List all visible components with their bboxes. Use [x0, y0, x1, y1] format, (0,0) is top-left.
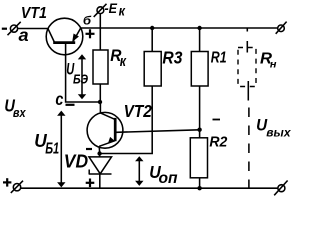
svg-text:а: а — [19, 25, 29, 45]
terminal bottom-right — [274, 181, 287, 196]
wire R1 bottom to R2 — [199, 86, 201, 138]
junction dot R2 bottom — [197, 186, 201, 190]
resistor Rn dashed top wire — [246, 28, 248, 32]
terminal bottom-left — [11, 181, 23, 193]
VD junction dot — [97, 151, 101, 155]
diode VD (zener) — [89, 154, 112, 189]
resistor R1 — [191, 52, 208, 87]
wire VT1 collector down to node c — [66, 44, 100, 102]
minus sign at input a — [2, 28, 7, 30]
wire Rk bottom to node c — [99, 84, 101, 102]
svg-text:R3: R3 — [162, 47, 182, 67]
plus sign under node b — [86, 29, 95, 38]
node c junction dot — [98, 100, 102, 104]
plus sign bottom-left — [3, 178, 11, 186]
svg-text:R2: R2 — [209, 134, 227, 150]
top rail (emitter rail) — [81, 27, 278, 29]
resistor Rn (load, dashed) — [238, 48, 256, 87]
junction dot R1 top — [197, 26, 201, 30]
svg-text:оп: оп — [159, 170, 178, 187]
svg-text:вых: вых — [266, 125, 292, 139]
svg-text:к: к — [119, 3, 126, 19]
bottom rail — [21, 187, 278, 189]
svg-text:VT1: VT1 — [21, 5, 47, 22]
terminal -Ek — [94, 4, 107, 17]
svg-text:Э: Э — [80, 72, 88, 87]
resistor Rk — [93, 50, 108, 84]
wire R2 bottom to rail — [199, 178, 201, 188]
wire VT2 collector up to node c — [99, 102, 101, 113]
svg-text:б: б — [83, 16, 92, 28]
svg-text:-E: -E — [105, 0, 118, 16]
terminal top-right — [276, 22, 287, 34]
svg-text:R1: R1 — [211, 50, 227, 67]
svg-text:Б1: Б1 — [45, 140, 59, 157]
resistor R1 top wire — [199, 28, 201, 52]
resistor R3 top wire — [151, 28, 153, 52]
resistor Rn dashed bottom wire — [247, 81, 249, 101]
svg-text:c: c — [55, 89, 63, 109]
svg-text:VT2: VT2 — [124, 101, 152, 121]
svg-text:VD: VD — [64, 151, 88, 172]
wire VT2 emitter down to VD junction — [98, 146, 101, 153]
junction dot R1/R2/base — [197, 128, 201, 132]
transistor VT2 — [87, 112, 123, 148]
junction dot R3 top — [150, 26, 154, 30]
transistor VT1 — [46, 18, 83, 55]
svg-text:н: н — [270, 59, 277, 71]
wire -Ek down to Rk (crosses rail, no junction) — [99, 13, 101, 50]
voltage arrow U_op (double-headed) — [135, 156, 143, 186]
minus sign at VT2 emitter — [86, 148, 92, 150]
voltage arrow U_BE (double-headed) — [78, 54, 86, 99]
terminal a (input, left) — [8, 22, 21, 35]
minus sign above R2 — [213, 119, 221, 121]
wire R3 bottom down and left to VD junction — [100, 86, 153, 154]
resistor R3 — [144, 52, 161, 87]
resistor R2 — [190, 138, 207, 178]
svg-text:вх: вх — [13, 105, 26, 120]
wire VT2 base to R1/R2 junction — [116, 130, 199, 133]
wire input a to VT1 base — [18, 28, 49, 30]
plus sign at VD anode — [86, 179, 95, 188]
minus sign under node c wire — [66, 104, 75, 106]
voltage arrow U_B1 (double-headed) — [57, 111, 65, 188]
